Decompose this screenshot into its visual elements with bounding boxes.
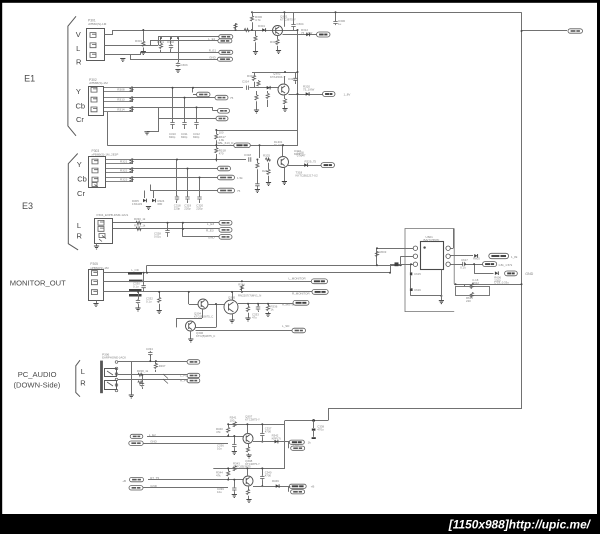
svg-text:xPB60(S)-1M: xPB60(S)-1M [90,266,109,270]
wire IC gnd stub [441,270,443,301]
flag GND E3 [218,188,235,193]
wire into pin2 [400,256,402,265]
svg-text:470: 470 [219,152,224,156]
wire FB601 to pin3 [399,264,414,266]
jack pins P306 [115,361,118,364]
wire Q302 output [289,94,323,96]
resistor R335 [248,304,250,307]
flag Y_E1 [192,88,194,93]
ground R327 [266,183,271,186]
svg-text:Y: Y [76,87,81,96]
resistor R318 stack [216,130,218,134]
svg-text:C-19_0.33u: C-19_0.33u [494,280,509,284]
ground Q308 [246,500,251,503]
wire Cr E1 [133,107,213,109]
capacitor C306 [335,12,337,20]
ground P301 shell [120,59,125,62]
wire Q307 emitter [248,444,250,448]
svg-text:R605: R605 [473,256,480,260]
wire Q305 collector [232,292,234,301]
svg-text:KTC(B)3875_C: KTC(B)3875_C [194,315,213,319]
flag Cb_E3 [218,166,231,171]
svg-text:MONITOR_OUT: MONITOR_OUT [10,278,66,287]
wire R E3 [113,228,219,230]
svg-text:75_1/6W: 75_1/6W [303,87,315,91]
flag IN stage2 [130,477,144,481]
resistor box R313 on Cb [103,97,133,99]
wire Q301 output [283,34,317,36]
capacitor C321 series [249,157,251,161]
svg-text:1_8V: 1_8V [344,93,351,97]
wire monitor pin3 [104,291,313,293]
black frame right edge [597,0,600,534]
wire C617 to flag [465,264,483,266]
pin 6 U601 [446,262,450,266]
transistor Q306 [186,321,196,331]
wire Q304 to Q305 [208,304,224,306]
svg-text:SBL_613_D: SBL_613_D [218,141,234,145]
svg-text:+B: +B [122,479,126,483]
capacitor C304 [293,12,295,23]
flag L_E3 [219,221,232,226]
wire pin6 to top [450,248,453,250]
flag L_PC [187,373,200,377]
resistor R315 [257,81,260,86]
wire Q303 emitter [284,168,286,182]
svg-text:E1: E1 [24,73,35,83]
capacitor C310 [172,88,174,121]
svg-text:C304: C304 [297,22,304,26]
flag SUB_OUT [483,262,497,267]
wire Q306 emitter [190,331,192,339]
resistor R306 [252,12,254,16]
svg-text:R301: R301 [135,39,142,43]
svg-text:10u: 10u [217,446,222,450]
resistor R330 [136,221,141,224]
wire monitor bus A [146,265,148,272]
ground R335 [245,318,250,321]
wire branch to top-right flag [522,30,568,32]
connector P305 [89,270,104,301]
svg-text:Cr: Cr [77,189,85,198]
wire PC top [118,361,187,363]
wire L from P301 [105,45,159,47]
resistor R309 to ground [255,30,257,36]
resistor R340 [228,424,230,427]
capacitor C336 [234,436,236,443]
resistor R302 [159,43,162,48]
svg-text:220p: 220p [174,207,181,211]
jack contacts P306 [105,369,117,377]
capacitor C323 [255,182,259,187]
connector P306 body [100,361,103,394]
wire delay bus upper [216,130,298,132]
svg-text:820p: 820p [169,135,176,139]
flag OUT2 stage1 [288,442,290,449]
svg-text:100: 100 [230,418,235,422]
capacitor C334 [150,355,152,361]
capacitor C303 [178,38,180,62]
transistor Q303 [278,157,289,168]
ground C338 [312,437,316,439]
flag IN stage1 [130,434,143,438]
wire R PC [118,379,187,381]
svg-text:R337: R337 [159,364,166,368]
wire P302 shield riser [107,112,109,145]
svg-text:820p: 820p [193,135,200,139]
svg-text:A_MUTE: A_MUTE [282,302,294,306]
flag R_E3 [219,228,232,233]
flag L_E1 [218,39,232,43]
svg-text:0.1u: 0.1u [133,285,139,289]
svg-text:C303: C303 [181,63,188,67]
svg-text:E3: E3 [22,201,33,211]
wire network feed [464,284,466,286]
svg-text:+B: +B [311,485,315,489]
ground Q301 emitter [277,46,279,50]
svg-text:R313: R313 [117,98,125,102]
wire bus step upper [328,408,522,410]
resistor array monitor 1 [128,272,142,275]
bracket E3 group [68,154,78,250]
wire Q303 output [288,165,321,167]
svg-text:820P_1: 820P_1 [294,152,304,156]
resistor R319 [267,91,269,94]
svg-text:KTC3875-Y: KTC3875-Y [245,462,260,466]
flag R_MONITOR [312,290,328,295]
svg-text:10u: 10u [217,490,222,494]
svg-text:xPB6B(S)-1M_2E3P: xPB6B(S)-1M_2E3P [92,153,119,157]
wire supply rail right [297,30,299,145]
flag MNT_OUT [489,253,509,258]
wire Q306 collector up [196,327,217,329]
resistor R325 series [265,158,270,161]
svg-text:1.8k_1.57k: 1.8k_1.57k [498,263,512,267]
resistor R301 [142,41,145,46]
ground E1 ycc [144,132,149,135]
wire Q308 emitter [248,486,250,490]
resistor box R323 on Cr E3 [106,177,133,179]
svg-text:L_MONITOR: L_MONITOR [289,277,306,281]
wire rail stage1 [228,424,285,426]
svg-text:C617: C617 [461,258,468,262]
resistor box R308 on Y [103,87,133,89]
svg-text:C318: C318 [244,153,251,157]
flag A_MUTE [293,300,309,305]
pin 2 U601 [413,254,417,258]
svg-text:L: L [77,221,81,230]
wire Cb E1 [133,97,213,99]
wire V2 from P301 [158,37,160,46]
ground C339 [232,495,237,498]
capacitor C312 [196,107,198,121]
wire GND from P301 [130,55,132,59]
capacitor C615 [410,264,412,272]
resistor R316 [254,72,256,75]
ground D305 D306 [146,207,151,210]
flag Y_OUT [323,92,336,97]
svg-text:680: 680 [158,202,163,206]
wire V from P301 [105,34,114,36]
flag OUT stage1 [289,440,304,444]
svg-text:47k: 47k [216,430,221,434]
svg-text:R_MONITOR: R_MONITOR [292,292,310,296]
svg-text:L: L [76,44,80,53]
svg-text:R338_1k: R338_1k [137,369,149,373]
wire branch to mute flag [474,264,476,273]
ground C323 [255,190,260,193]
svg-text:C341: C341 [293,443,300,447]
resistor box R321 on Y E3 [106,159,133,161]
svg-text:GND: GND [525,272,533,276]
node monitor pin3 junction [241,291,243,293]
svg-text:xPB60(S)-1M: xPB60(S)-1M [88,22,107,26]
ic U601 body [421,242,444,270]
ground C303 [175,70,180,73]
flag L_MONITOR [311,279,327,284]
svg-text:100: 100 [219,131,224,135]
diode D302 [306,33,309,37]
flag Y_OUT_E3 [321,163,335,168]
wire Y E3 [133,159,246,161]
transistor Q308 [243,476,253,486]
wire rail corner to Q303 [259,145,261,158]
switch arrows P306 [163,374,168,384]
svg-text:GND: GND [208,236,215,240]
wire Cb E3 [133,168,218,170]
svg-text:KTC3875-Y: KTC3875-Y [245,418,260,422]
ground R336 [268,312,270,313]
diode D308 [275,440,278,444]
wire R from P301 [105,54,141,56]
svg-text:820p: 820p [181,135,188,139]
watermark bar [0,514,600,534]
wire shield E3 [150,185,152,191]
bracket PC_AUDIO group [76,360,80,397]
resistor R336 [268,304,270,306]
node V bus junction [235,29,237,31]
wire delay line [107,145,234,147]
svg-text:1u: 1u [338,22,342,26]
wire L E3 [113,222,219,224]
svg-text:1_8k: 1_8k [511,255,518,259]
flag OUT stage2 [289,484,306,488]
transistor Q302 [278,84,289,95]
wire Y E1 [133,87,243,89]
flag PC top [187,360,200,364]
wire C328 bus [182,223,184,237]
svg-text:R: R [76,231,82,240]
wire Q304 base feed [188,292,190,304]
svg-text:EARPHONE-JACK: EARPHONE-JACK [102,356,126,360]
svg-text:75_1/6W: 75_1/6W [301,31,313,35]
capacitor C339 [234,480,236,487]
svg-text:0.1u: 0.1u [460,265,466,269]
svg-text:KRF(?): KRF(?) [272,436,281,440]
svg-text:4700: 4700 [265,473,272,477]
node monitor pin2 junction [241,280,243,282]
wire pin5 out [450,255,473,257]
svg-text:KTA1504-Y: KTA1504-Y [270,75,286,79]
svg-text:L: L [81,367,85,376]
wire rail stage2 [213,468,285,470]
pin 5 U601 [446,254,450,258]
wire stage2 output [253,486,290,488]
resistor R339 [138,381,143,384]
node Y E3 junction [215,159,217,161]
wire stage1 output [253,441,289,443]
black frame top edge [0,0,600,3]
wire Q301 collector [284,12,286,27]
diode D306 [153,191,155,199]
resistor array monitor 2 [129,280,143,283]
diode D309 [276,484,279,488]
wire Q305 output [238,303,293,305]
ground C332 [159,304,161,310]
wire shield E1 [158,107,160,118]
flag AUDIO_MUTE [505,271,518,276]
pin 3 U601 [413,262,417,266]
flag GND stage1 [129,441,143,445]
svg-text:R321: R321 [120,160,128,164]
resistor network R612 [456,287,490,296]
ground U601 [439,301,444,304]
svg-text:Y: Y [77,160,82,169]
ferrite FB601 [395,262,399,266]
capacitor C337 [262,424,264,432]
ground R301 [141,52,146,55]
svg-text:R316: R316 [247,74,254,78]
svg-text:R314: R314 [117,107,125,111]
ground R319 [254,110,259,113]
flag Cr_E3 [218,175,235,180]
connector P304 [95,219,113,244]
pin hooks P304 [99,234,106,242]
resistor R307 series [244,28,249,31]
ground R309 [253,52,258,55]
capacitor C302 [169,44,173,49]
capacitor C311 [184,98,186,121]
flag GND E1 [218,57,233,61]
diode D601 [474,254,477,258]
diode D602 [495,271,498,275]
ground P304 shell [96,243,98,246]
svg-text:R346: R346 [272,479,279,483]
ground C336 [232,452,237,455]
node Q302 out junction [297,93,299,95]
svg-text:L_SD: L_SD [282,324,289,328]
svg-text:47k: 47k [216,473,221,477]
flag OUT2 stage2 [288,486,290,492]
flag V_OUT [317,32,331,37]
wire Q305 emitter [232,314,234,320]
svg-text:220: 220 [466,299,471,303]
svg-text:C315: C315 [288,77,295,81]
svg-text:R322: R322 [120,169,128,173]
svg-text:1.5k: 1.5k [237,176,243,180]
connector P303 [89,157,106,188]
svg-text:1k: 1k [308,441,312,445]
wire stage1 input [147,436,243,438]
wire Cr E3 [133,177,218,179]
dot pin1 marker [423,246,425,248]
capacitor C332 [159,292,161,298]
svg-text:4.7k: 4.7k [255,18,261,22]
svg-text:(DOWN-Side): (DOWN-Side) [14,380,61,389]
svg-text:4700: 4700 [265,429,272,433]
svg-text:L_E3: L_E3 [207,222,214,226]
resistor R603 [375,251,378,256]
svg-text:47u: 47u [252,316,257,320]
diode D301 [262,28,265,32]
svg-text:R_E3: R_E3 [206,229,214,233]
wire Q304 emitter chain [202,309,204,318]
svg-text:R330_1k: R330_1k [134,217,146,221]
diode D307 [304,163,307,167]
wire Q301 emitter [277,36,279,40]
wire supply drop to bottom stages [284,421,286,469]
svg-text:0.01u: 0.01u [154,235,162,239]
wire Q307 collector [247,424,249,433]
svg-text:C314: C314 [242,80,249,84]
wire rail Q302 [252,72,298,74]
ground Q305 [229,320,234,323]
flag delay line [234,143,251,148]
svg-text:GND: GND [150,439,157,443]
wire to ground bus [158,119,160,132]
flag Cr_E1 [212,107,214,110]
resistor array monitor 3 [129,289,142,292]
resistor R341 on rail [233,422,236,427]
svg-text:Cb: Cb [76,102,86,111]
wire Q303 collector [282,145,284,156]
capacitor C331 [138,292,140,300]
svg-text:PC_AUDIO: PC_AUDIO [18,370,57,379]
black frame left edge [0,0,2,534]
svg-text:470u: 470u [317,428,324,432]
svg-text:L_E1: L_E1 [208,37,215,41]
node network left [455,283,457,285]
svg-text:R: R [80,379,86,388]
wire Q302 collector [284,76,286,84]
resistor R345 on rail [233,466,236,471]
wire L_SD [196,330,293,332]
svg-text:R: R [76,57,82,66]
svg-text:220p: 220p [184,207,191,211]
wire right vertical bus [521,12,523,409]
pin 1 U601 [413,246,417,250]
svg-text:KKTC(B)1217-U2: KKTC(B)1217-U2 [296,174,319,178]
capacitor C314 [247,86,249,90]
pin 4 U601 [446,246,450,250]
diode D304 [306,92,309,96]
flag GND E3 audio [183,236,219,238]
svg-text:Cr: Cr [76,115,84,124]
svg-text:R325: R325 [263,154,270,158]
svg-text:KTC(B)3875_C: KTC(B)3875_C [196,334,215,338]
svg-text:75: 75 [230,96,234,100]
svg-text:C334: C334 [146,347,153,351]
flag R_PC [187,378,200,382]
diode D303 [267,86,270,90]
wire C616 to gnd bus [410,291,412,296]
resistor array monitor 4 [129,294,142,297]
wire top bus [252,12,522,14]
flag L_SD [292,328,306,333]
resistor R326 bias [257,160,259,164]
connector P301 [87,29,105,61]
capacitor C617 series [463,262,465,266]
